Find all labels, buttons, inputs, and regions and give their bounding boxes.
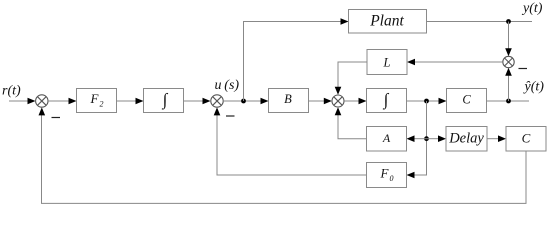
svg-text:0: 0: [390, 174, 394, 183]
minus sign at S1: [52, 117, 61, 119]
svg-text:ŷ(t): ŷ(t): [523, 80, 545, 95]
wire input r(t) to S1: [9, 98, 36, 105]
block F2: [77, 89, 117, 113]
minus sign at S4: [519, 68, 528, 70]
node on yhat line: [506, 99, 511, 104]
wire C to yhat output: [487, 100, 530, 102]
svg-text:B: B: [284, 92, 292, 106]
wire B to S3: [309, 98, 332, 105]
wire branch up to Plant: [244, 18, 349, 101]
wire node to Delay: [427, 135, 447, 142]
wire S3 to I2: [344, 98, 366, 105]
block integrator I1: [144, 89, 184, 113]
svg-text:F: F: [380, 166, 390, 181]
block integrator I2: [367, 89, 407, 113]
wire node to A: [407, 135, 427, 142]
block L: [367, 50, 407, 75]
svg-text:Plant: Plant: [369, 13, 404, 30]
wire Plant to y(t): [427, 21, 533, 23]
svg-text:2: 2: [100, 100, 104, 109]
wire A to S3 bottom: [335, 107, 367, 139]
svg-text:u (s): u (s): [215, 78, 240, 93]
wire L to S3 top: [335, 62, 367, 95]
svg-text:C: C: [462, 93, 471, 107]
wire F0 to S2 bottom: [214, 107, 367, 175]
summing junction S2: [211, 95, 223, 107]
summing junction S3: [332, 95, 344, 107]
wire F2 to integrator I1: [117, 98, 144, 105]
summing junction S1: [36, 95, 48, 107]
block C mid: [447, 89, 487, 113]
block C bottom-right: [506, 127, 546, 152]
minus sign at S2: [226, 115, 235, 117]
node after S2: [241, 99, 246, 104]
wire S4 to L: [407, 59, 503, 66]
svg-text:L: L: [383, 56, 391, 70]
wire trunk down from node to F0: [407, 101, 427, 178]
wire Delay to C bottom-right: [487, 135, 506, 142]
wire I1 to S2: [184, 98, 211, 105]
wire S1 to F2: [48, 98, 77, 105]
svg-text:F: F: [90, 91, 100, 106]
wire y branch down to S4: [505, 22, 512, 57]
svg-text:y(t): y(t): [521, 1, 543, 16]
svg-text:C: C: [522, 131, 531, 146]
summing junction S4: [503, 56, 514, 67]
node on trunk at A/Delay row: [424, 136, 429, 141]
svg-text:A: A: [382, 131, 391, 145]
wire S2 to B with branch node: [223, 98, 268, 105]
svg-text:Delay: Delay: [448, 131, 484, 147]
block A: [367, 127, 407, 152]
node after I2: [424, 99, 429, 104]
wire I2 to C with node: [407, 98, 447, 105]
block Delay: [446, 127, 487, 152]
block F0: [367, 163, 407, 188]
svg-text:r(t): r(t): [2, 84, 21, 99]
block Plant: [349, 10, 427, 34]
wire C bottom-right to S1 bottom (outer feedback): [39, 107, 527, 203]
wire yhat branch up to S4 bottom: [505, 68, 512, 101]
node on y(t) line: [506, 19, 511, 24]
block B: [269, 89, 309, 113]
